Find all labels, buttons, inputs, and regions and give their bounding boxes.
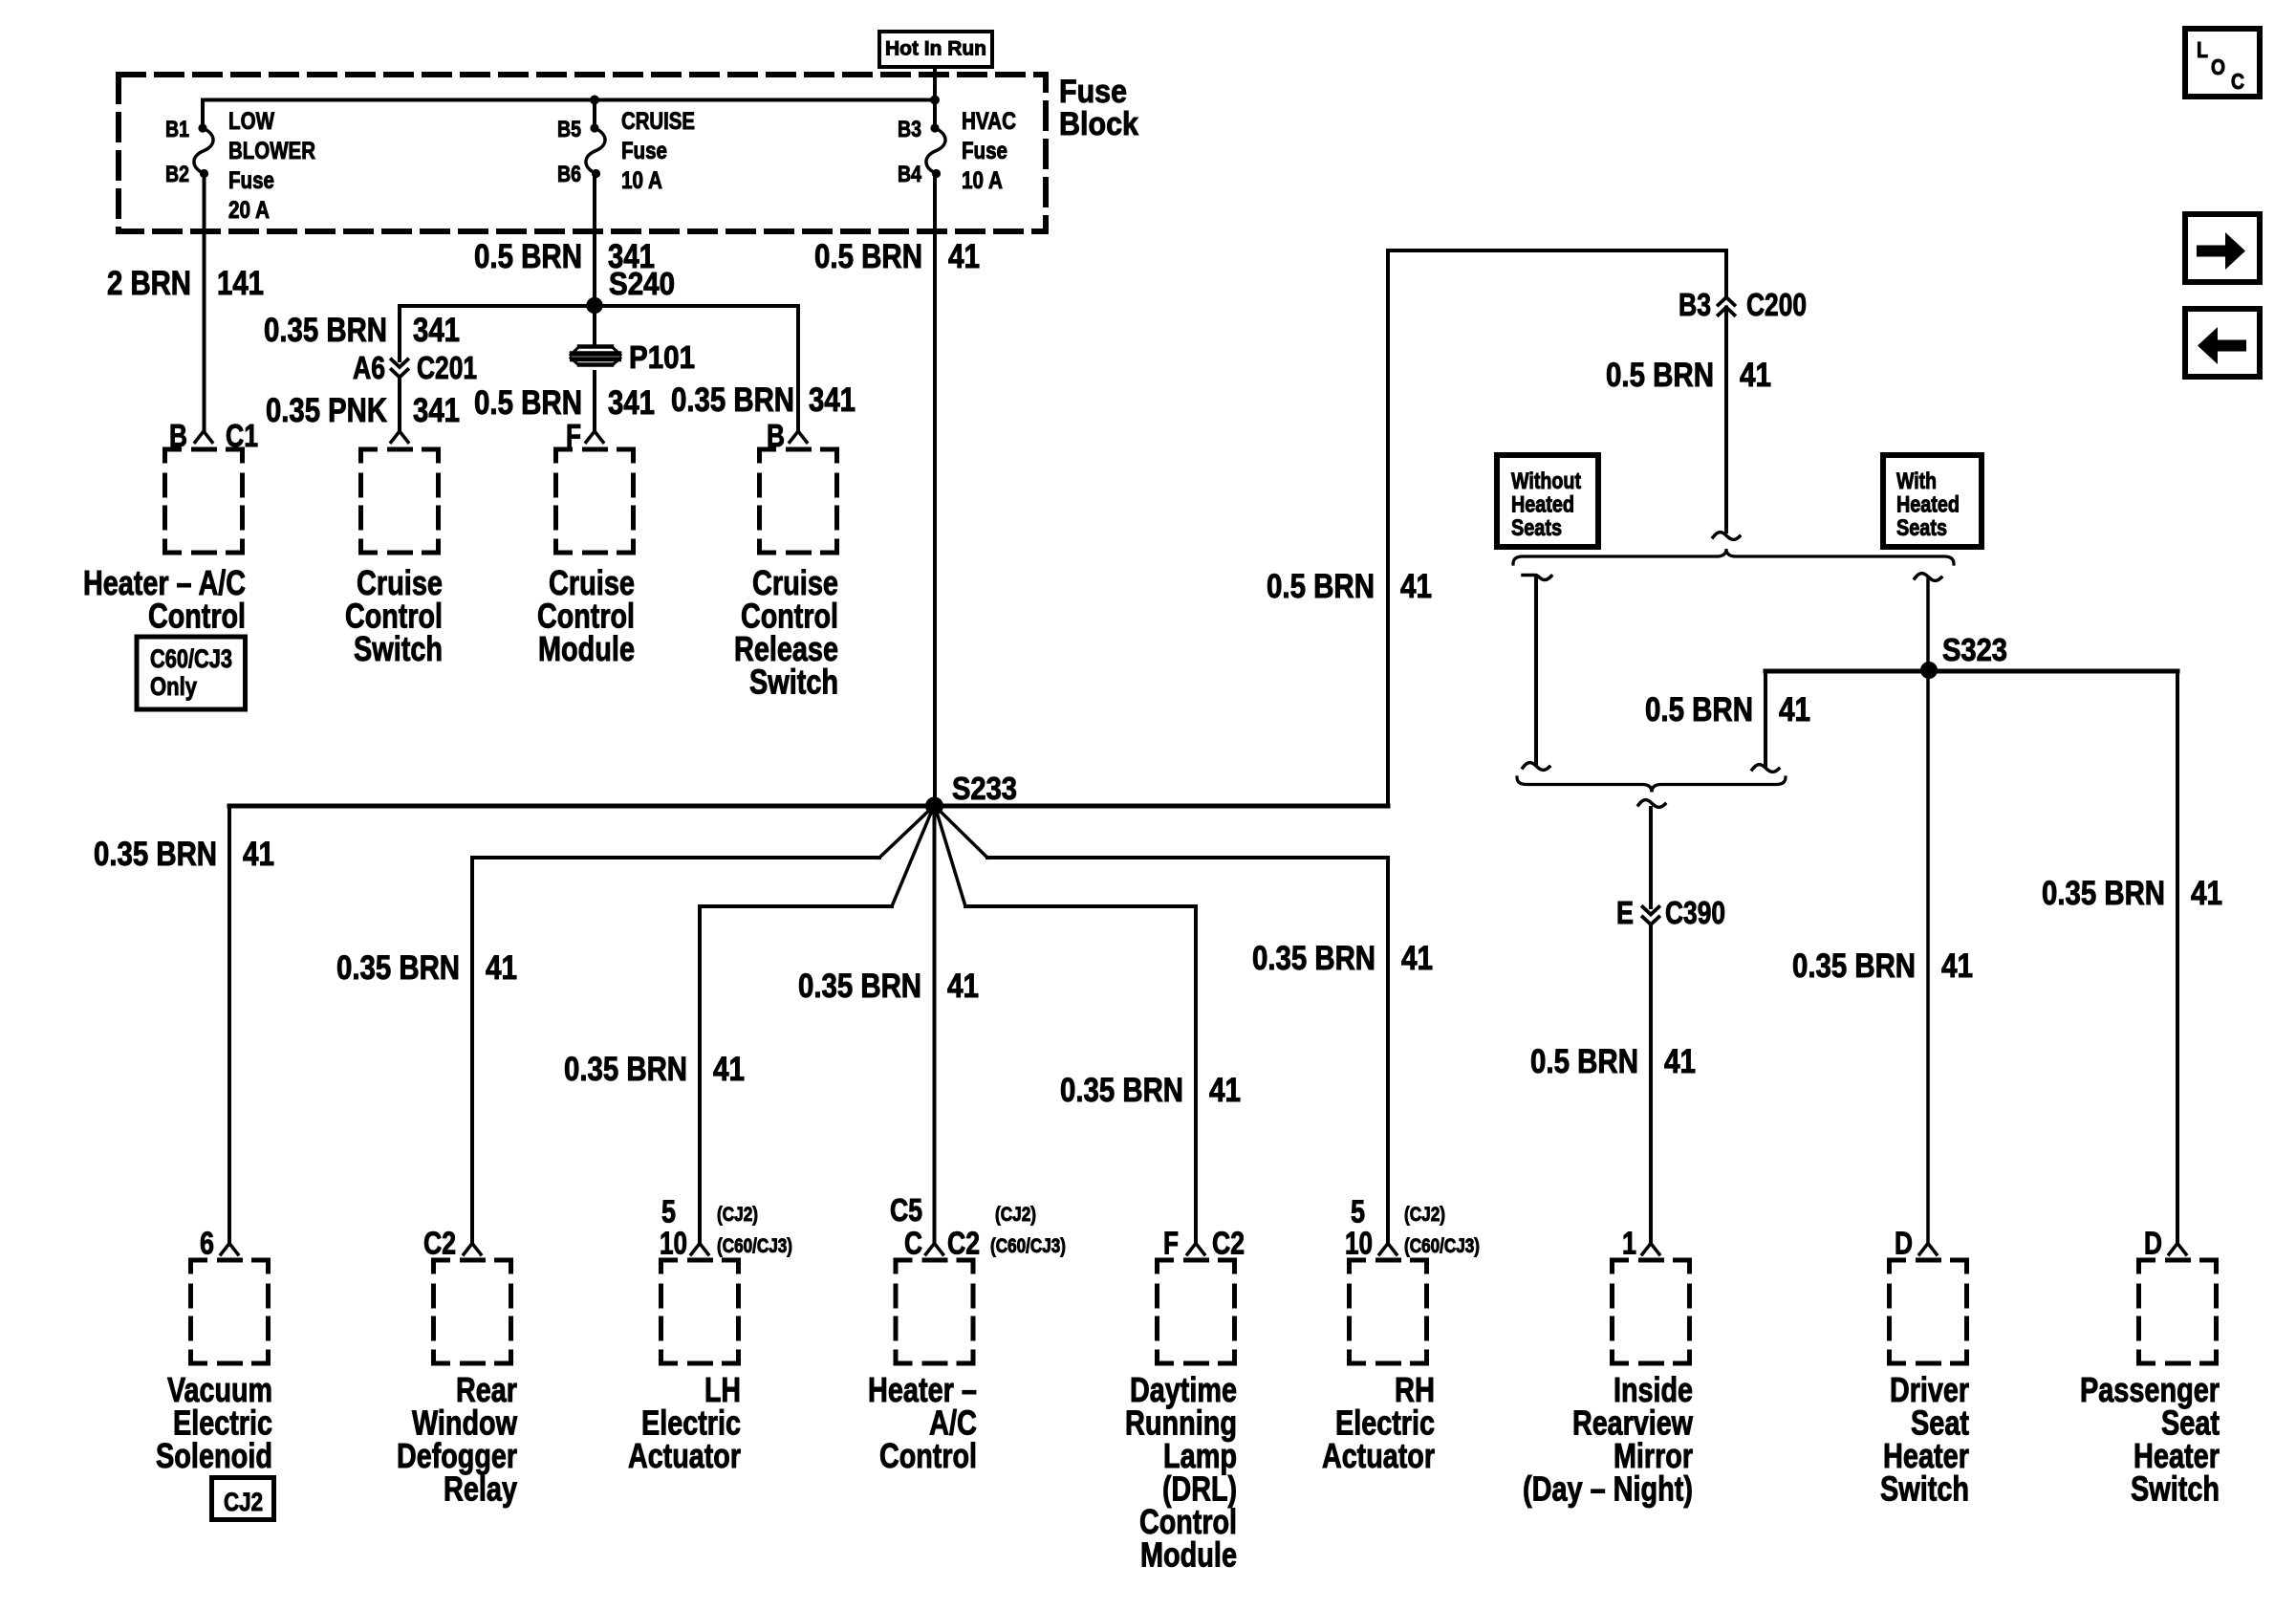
- label Vacuum Electric Solenoid: [156, 1370, 272, 1475]
- wire - bus stub to low blower fuse: [201, 100, 205, 129]
- svg-text:41: 41: [1779, 691, 1810, 729]
- label 0.5 BRN 41 right riser: [1267, 568, 1432, 605]
- connector pin B at release switch: [767, 418, 807, 453]
- svg-text:D: D: [2144, 1226, 2162, 1261]
- component - Driver Seat Heater Switch connector box: [1890, 1244, 1967, 1364]
- svg-text:0.35 BRN: 0.35 BRN: [564, 1051, 687, 1088]
- connector pins C5 C C2 at heater a/c control: [890, 1192, 1066, 1261]
- wire - 0.35 BRN 41 S233 down to heater a/c control: [933, 806, 937, 1243]
- svg-text:Switch: Switch: [1880, 1469, 1969, 1509]
- svg-text:5: 5: [1351, 1194, 1365, 1229]
- wire - with heated seats drop to S323: [1915, 574, 1941, 670]
- svg-text:0.35 BRN: 0.35 BRN: [1060, 1072, 1183, 1109]
- svg-text:6: 6: [200, 1226, 214, 1261]
- svg-text:41: 41: [947, 968, 979, 1005]
- svg-text:341: 341: [413, 392, 460, 429]
- svg-text:Switch: Switch: [354, 629, 443, 668]
- svg-text:Fuse: Fuse: [962, 138, 1007, 164]
- component - Cruise Control Release Switch connector box: [760, 449, 837, 553]
- svg-text:20 A: 20 A: [228, 197, 270, 224]
- wire - 0.35 BRN 41 down to LH actuator: [698, 906, 702, 1243]
- svg-text:E: E: [1616, 895, 1634, 930]
- svg-text:41: 41: [1401, 940, 1433, 977]
- wire - without heated seats stub: [1523, 576, 1551, 771]
- svg-text:0.35 BRN: 0.35 BRN: [798, 968, 921, 1005]
- fuse - LOW BLOWER Fuse 20A (B1-B2): [194, 123, 213, 178]
- grommet P101: [571, 347, 620, 365]
- label 0.5 BRN 41 at C200: [1606, 357, 1771, 394]
- svg-text:B2: B2: [165, 162, 189, 187]
- junction on bus at hvac fuse: [930, 96, 940, 105]
- wire - 0.35 BRN 41 from S323 to driver seat heater switch: [1926, 670, 1930, 1243]
- wire - 0.35 BRN 41 down to DRL module: [1194, 906, 1198, 1243]
- wire - S233 diagonal to defogger branch: [879, 806, 934, 858]
- svg-text:Fuse: Fuse: [228, 167, 274, 194]
- svg-text:HVAC: HVAC: [962, 108, 1016, 135]
- svg-text:0.5 BRN: 0.5 BRN: [1645, 691, 1753, 729]
- svg-text:(C60/CJ3): (C60/CJ3): [990, 1235, 1066, 1257]
- wire - S233 diagonal to RH actuator branch: [935, 806, 987, 858]
- wire end curl above brace: [1713, 533, 1740, 540]
- label Cruise Control Module: [537, 563, 635, 668]
- svg-text:Switch: Switch: [749, 663, 838, 702]
- svg-text:0.5 BRN: 0.5 BRN: [1267, 568, 1375, 605]
- svg-text:41: 41: [2191, 875, 2222, 912]
- wire - DRL branch horizontal: [965, 904, 1196, 908]
- svg-text:Control: Control: [879, 1436, 977, 1475]
- svg-text:41: 41: [1941, 947, 1973, 985]
- wire - 0.5 BRN 341 from cruise fuse to S240: [593, 177, 596, 306]
- label 0.35 BRN 41 heater a/c: [798, 968, 979, 1005]
- wire curl below lower brace: [1638, 800, 1665, 808]
- svg-text:41: 41: [486, 949, 517, 987]
- svg-text:Without: Without: [1511, 468, 1581, 494]
- wire - 0.35 BRN 41 to vacuum electric solenoid: [227, 806, 231, 1243]
- wire - top right horizontal: [1388, 249, 1726, 252]
- LOC reference box: [2185, 29, 2260, 97]
- svg-text:Hot In Run: Hot In Run: [885, 38, 986, 60]
- svg-text:0.35 BRN: 0.35 BRN: [94, 836, 217, 873]
- option brace lower: [1517, 777, 1786, 793]
- splice S240: [586, 297, 602, 314]
- svg-text:L: L: [2197, 37, 2208, 62]
- option box With Heated Seats: [1883, 455, 1982, 547]
- svg-text:Seats: Seats: [1896, 515, 1947, 541]
- wire - bus stub to cruise fuse: [593, 100, 596, 129]
- wire - down to C200 arrow: [1724, 250, 1728, 297]
- svg-text:341: 341: [413, 312, 460, 349]
- wire - S233 diagonal to DRL branch: [935, 806, 965, 906]
- right arrow navigation box: [2185, 214, 2260, 282]
- svg-text:Module: Module: [538, 629, 635, 668]
- svg-text:O: O: [2211, 54, 2225, 79]
- svg-text:41: 41: [713, 1051, 745, 1088]
- fuse - CRUISE Fuse 10A (B5-B6): [586, 123, 605, 178]
- svg-text:41: 41: [1664, 1043, 1696, 1080]
- connector pin B of C1: [169, 418, 258, 453]
- svg-text:0.5 BRN: 0.5 BRN: [474, 384, 582, 422]
- splice S323: [1920, 662, 1938, 679]
- svg-text:S323: S323: [1942, 632, 2007, 667]
- svg-text:Control: Control: [148, 597, 246, 636]
- wire - LH actuator branch horizontal: [700, 904, 892, 908]
- svg-text:0.35 BRN: 0.35 BRN: [1792, 947, 1916, 985]
- fuse block dashed boundary: [119, 75, 1046, 231]
- connector C200 pin B3 arrows: [1679, 287, 1807, 322]
- svg-text:10 A: 10 A: [621, 167, 662, 194]
- svg-text:1: 1: [1622, 1226, 1636, 1261]
- wire - 0.35 BRN 41 down to RH actuator: [1386, 858, 1390, 1243]
- svg-text:141: 141: [217, 265, 264, 302]
- svg-text:0.35 BRN: 0.35 BRN: [2042, 875, 2165, 912]
- label 0.35 PNK 341: [266, 392, 460, 429]
- svg-text:0.35 BRN: 0.35 BRN: [336, 949, 460, 987]
- component - Cruise Control Switch connector box: [361, 449, 439, 553]
- svg-text:C2: C2: [947, 1226, 980, 1261]
- wire - 0.35 BRN 41 down to defogger relay: [470, 858, 474, 1243]
- svg-text:(CJ2): (CJ2): [1404, 1204, 1445, 1226]
- wire - 0.5 BRN 341 from P101 to cruise control module: [593, 372, 596, 431]
- label 0.35 BRN 41 RH actuator: [1252, 940, 1433, 977]
- svg-text:10 A: 10 A: [962, 167, 1003, 194]
- wire - 0.35 BRN 341 down to C201: [398, 306, 401, 360]
- connector fork at cruise control switch: [391, 431, 408, 443]
- wire - RH actuator branch horizontal: [987, 856, 1388, 859]
- svg-text:C2: C2: [423, 1226, 456, 1261]
- wire - S240 down to P101: [593, 306, 596, 345]
- component - Rear Window Defogger Relay connector box: [434, 1244, 511, 1364]
- connector pins 5 10 at RH actuator: [1345, 1194, 1480, 1261]
- component - RH Electric Actuator connector box: [1350, 1244, 1427, 1364]
- wire - 0.35 PNK 341 from C201 to cruise control switch: [398, 379, 401, 431]
- note box C60/CJ3 Only: [137, 637, 246, 709]
- svg-text:P101: P101: [629, 339, 695, 375]
- svg-text:B5: B5: [557, 117, 581, 142]
- svg-text:341: 341: [809, 381, 856, 419]
- label 0.35 BRN 41 DRL: [1060, 1072, 1241, 1109]
- svg-text:0.35 BRN: 0.35 BRN: [264, 312, 387, 349]
- svg-text:0.5 BRN: 0.5 BRN: [474, 238, 582, 275]
- svg-text:Only: Only: [150, 672, 197, 701]
- svg-text:Module: Module: [1140, 1535, 1237, 1575]
- component - Cruise Control Module connector box: [556, 449, 634, 553]
- svg-text:C60/CJ3: C60/CJ3: [150, 644, 232, 673]
- label 0.5 BRN 41 stub: [1645, 691, 1810, 729]
- label 0.5 BRN 341 at module: [474, 384, 655, 422]
- svg-text:C2: C2: [1212, 1226, 1245, 1261]
- wire - S323 horizontal: [1765, 669, 2177, 674]
- svg-text:(CJ2): (CJ2): [717, 1204, 758, 1226]
- label 0.5 BRN 41: [814, 238, 980, 275]
- junction on bus at cruise fuse: [590, 96, 599, 105]
- svg-text:0.5 BRN: 0.5 BRN: [814, 238, 922, 275]
- wire - fuse block bus: [203, 98, 935, 102]
- svg-text:Actuator: Actuator: [1322, 1436, 1435, 1475]
- fuse - HVAC Fuse 10A (B3-B4): [926, 123, 945, 178]
- svg-text:Relay: Relay: [444, 1469, 517, 1509]
- svg-text:B1: B1: [165, 117, 189, 142]
- svg-text:LOW: LOW: [228, 108, 274, 135]
- option box Without Heated Seats: [1497, 455, 1598, 547]
- svg-text:With: With: [1896, 468, 1937, 494]
- left arrow navigation box: [2185, 309, 2260, 377]
- label 0.35 BRN 41 solenoid: [94, 836, 274, 873]
- svg-text:(CJ2): (CJ2): [995, 1204, 1036, 1226]
- svg-text:B4: B4: [898, 162, 922, 187]
- svg-text:(C60/CJ3): (C60/CJ3): [717, 1235, 792, 1257]
- wire - S233 horizontal left: [229, 804, 934, 809]
- svg-text:Fuse: Fuse: [621, 138, 667, 164]
- svg-text:C5: C5: [890, 1192, 922, 1228]
- svg-text:Block: Block: [1059, 106, 1138, 142]
- svg-text:Fuse: Fuse: [1059, 74, 1127, 110]
- note box CJ2: [212, 1478, 274, 1520]
- component - Heater A/C Control connector box: [165, 449, 243, 553]
- svg-text:0.35 BRN: 0.35 BRN: [671, 381, 794, 419]
- wire - 0.5 BRN 41 from C200 down: [1724, 308, 1728, 533]
- component - Passenger Seat Heater Switch connector box: [2139, 1244, 2217, 1364]
- wire - S233 right branch up: [1386, 250, 1390, 806]
- svg-text:0.35 BRN: 0.35 BRN: [1252, 940, 1375, 977]
- label 0.35 BRN 41 LH actuator: [564, 1051, 745, 1088]
- svg-text:C200: C200: [1746, 287, 1807, 322]
- label 0.35 BRN 341: [264, 312, 460, 349]
- connector pin F at cruise control module: [566, 418, 603, 453]
- label HVAC Fuse 10 A: [962, 108, 1016, 194]
- Hot In Run power label box: [879, 32, 992, 67]
- svg-text:S240: S240: [609, 266, 675, 301]
- label LH Electric Actuator: [628, 1370, 741, 1475]
- connector C201 pin A6 arrows: [353, 350, 477, 385]
- label Heater A/C Control bottom: [868, 1370, 977, 1475]
- svg-text:(C60/CJ3): (C60/CJ3): [1404, 1235, 1480, 1257]
- wire - hot in run feed into fuse block: [933, 67, 937, 128]
- svg-text:5: 5: [661, 1194, 676, 1229]
- svg-text:Heated: Heated: [1896, 492, 1960, 518]
- svg-text:2 BRN: 2 BRN: [107, 265, 191, 302]
- wire - 2 BRN 141 from low blower fuse to heater a/c control: [203, 177, 206, 431]
- label 0.35 BRN 41 defogger: [336, 949, 517, 987]
- svg-text:A6: A6: [353, 350, 385, 385]
- wire - S323 right branch down to passenger seat heater switch: [2176, 671, 2179, 1243]
- svg-text:341: 341: [608, 384, 655, 422]
- svg-text:10: 10: [1345, 1226, 1373, 1261]
- svg-text:10: 10: [660, 1226, 687, 1261]
- svg-text:B6: B6: [557, 162, 581, 187]
- wire - 0.5 BRN 41 from hvac fuse down to S233: [933, 177, 937, 806]
- component - Heater A/C Control bottom connector box: [896, 1244, 973, 1364]
- label Passenger Seat Heater Switch: [2080, 1370, 2220, 1509]
- svg-text:(Day – Night): (Day – Night): [1523, 1469, 1693, 1509]
- label Cruise Control Switch: [345, 563, 443, 668]
- svg-text:41: 41: [243, 836, 274, 873]
- svg-text:C: C: [904, 1226, 922, 1261]
- label Driver Seat Heater Switch: [1880, 1370, 1969, 1509]
- svg-text:41: 41: [1209, 1072, 1241, 1109]
- label Daytime Running Lamp DRL Control Module: [1125, 1370, 1237, 1575]
- label Heater A/C Control: [83, 563, 246, 636]
- wire - 0.5 BRN 41 to inside rearview mirror: [1649, 925, 1653, 1243]
- component - Vacuum Electric Solenoid connector box: [191, 1244, 269, 1364]
- svg-text:BLOWER: BLOWER: [228, 138, 315, 164]
- connector C390 pin E arrows: [1616, 895, 1725, 930]
- label 2 BRN 141: [107, 265, 264, 302]
- component - Inside Rearview Mirror connector box: [1613, 1244, 1690, 1364]
- label LOW BLOWER Fuse 20 A: [228, 108, 315, 224]
- svg-text:Solenoid: Solenoid: [156, 1436, 272, 1475]
- wire - defogger branch horizontal: [472, 856, 879, 859]
- label 0.35 BRN 341 at release switch: [671, 381, 856, 419]
- label 0.5 BRN 41 mirror: [1530, 1043, 1696, 1080]
- wire - down to C390 arrow: [1649, 808, 1653, 907]
- label RH Electric Actuator: [1322, 1370, 1435, 1475]
- wire - S233 diagonal to LH actuator branch: [892, 806, 934, 906]
- svg-text:0.5 BRN: 0.5 BRN: [1530, 1043, 1638, 1080]
- component - LH Electric Actuator connector box: [661, 1244, 739, 1364]
- splice S233: [925, 797, 943, 816]
- connector pins 5 10 at LH actuator: [660, 1194, 792, 1261]
- svg-text:S233: S233: [952, 771, 1017, 806]
- label Cruise Control Release Switch: [734, 563, 838, 702]
- svg-text:Switch: Switch: [2131, 1469, 2220, 1509]
- label Rear Window Defogger Relay: [397, 1370, 518, 1509]
- wire - 0.5 BRN 41 stub from S323: [1752, 671, 1779, 772]
- svg-text:Actuator: Actuator: [628, 1436, 741, 1475]
- component - Daytime Running Lamp DRL Control Module connector box: [1158, 1244, 1235, 1364]
- svg-text:C390: C390: [1665, 895, 1725, 930]
- svg-text:41: 41: [1740, 357, 1771, 394]
- svg-text:F: F: [1163, 1226, 1179, 1261]
- label 0.5 BRN 341: [474, 238, 655, 275]
- label CRUISE Fuse 10 A: [621, 108, 695, 194]
- wire - S240 branch horizontal: [400, 304, 798, 308]
- svg-text:B3: B3: [898, 117, 921, 142]
- svg-text:41: 41: [948, 238, 980, 275]
- label Inside Rearview Mirror Day-Night: [1523, 1370, 1694, 1509]
- fuse block name label: [1059, 74, 1138, 142]
- svg-text:B3: B3: [1679, 287, 1711, 322]
- label 0.35 BRN 41 driver seat: [1792, 947, 1973, 985]
- svg-text:Seats: Seats: [1511, 515, 1562, 541]
- svg-text:D: D: [1895, 1226, 1913, 1261]
- wire - S233 horizontal right: [935, 804, 1388, 809]
- svg-text:0.5 BRN: 0.5 BRN: [1606, 357, 1714, 394]
- option brace upper: [1513, 549, 1954, 564]
- svg-text:C201: C201: [417, 350, 477, 385]
- svg-text:C: C: [2231, 69, 2244, 94]
- svg-text:CRUISE: CRUISE: [621, 108, 695, 135]
- connector pins F C2 at DRL module: [1163, 1226, 1245, 1261]
- svg-text:Heated: Heated: [1511, 492, 1574, 518]
- label 0.35 BRN 41 passenger seat: [2042, 875, 2222, 912]
- svg-text:0.35 PNK: 0.35 PNK: [266, 392, 387, 429]
- wire - 0.35 BRN 341 to cruise control release switch: [796, 306, 800, 431]
- svg-text:41: 41: [1400, 568, 1432, 605]
- svg-text:CJ2: CJ2: [224, 1488, 263, 1516]
